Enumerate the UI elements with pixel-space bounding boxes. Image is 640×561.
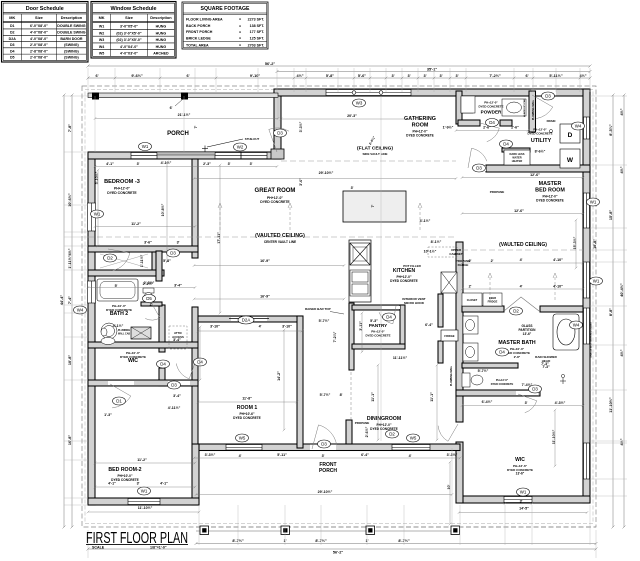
interior wall bedroom-3 east / hall — [192, 159, 198, 258]
closet divider wall — [152, 252, 158, 276]
svg-text:4': 4' — [520, 285, 523, 289]
svg-text:4': 4' — [520, 258, 523, 262]
door D2 dining wic swing — [438, 424, 458, 441]
svg-text:ARCHED: ARCHED — [153, 52, 169, 56]
svg-text:GRACLE AND TEMPERED GLASS: GRACLE AND TEMPERED GLASS — [590, 322, 593, 358]
svg-text:SCALE: SCALE — [92, 546, 105, 550]
svg-text:7'-2¼": 7'-2¼" — [333, 331, 337, 342]
svg-text:W4: W4 — [575, 124, 582, 129]
plumbing wall box bath2 — [131, 327, 151, 339]
svg-text:Description: Description — [61, 15, 83, 20]
bedroom-2 south wall — [88, 498, 199, 505]
svg-text:Description: Description — [150, 15, 172, 20]
svg-text:DYED CONCRETE: DYED CONCRETE — [260, 200, 290, 204]
door D1 wic opening — [108, 381, 134, 385]
svg-text:BRICK LEDGE: BRICK LEDGE — [186, 37, 211, 41]
door label D3 hall — [167, 249, 180, 257]
top dimension 56ft — [87, 65, 592, 68]
wic / bedroom-2 divider wall — [88, 380, 198, 386]
svg-text:ROOM: ROOM — [412, 122, 429, 128]
bath2 tub — [97, 279, 138, 301]
kitchen alcove wall upper — [438, 294, 443, 327]
window label W5 room1 — [236, 434, 249, 442]
svg-text:=: = — [239, 18, 241, 22]
porch post 1 — [92, 93, 99, 100]
svg-text:3'-4": 3'-4" — [174, 284, 182, 288]
svg-text:6'-0"X8'-0": 6'-0"X8'-0" — [30, 24, 48, 28]
svg-text:6'-4": 6'-4" — [361, 453, 369, 457]
door label D2 dining wic — [386, 430, 399, 438]
door D3 front entry swing — [312, 425, 337, 449]
svg-text:D3: D3 — [170, 251, 176, 256]
svg-text:Size: Size — [35, 15, 44, 20]
svg-text:5'-6": 5'-6" — [358, 74, 366, 78]
svg-text:DYED CONCRETE: DYED CONCRETE — [365, 333, 390, 337]
svg-text:8'-8": 8'-8" — [609, 308, 613, 316]
svg-text:D4: D4 — [503, 142, 509, 147]
svg-text:D4: D4 — [160, 362, 166, 367]
front porch post 2 — [281, 526, 290, 535]
svg-text:16'-9": 16'-9" — [260, 295, 270, 299]
left dimension segments — [71, 94, 74, 529]
master vanity sinks — [463, 316, 478, 361]
svg-text:4'-0"X3'-0": 4'-0"X3'-0" — [120, 52, 138, 56]
door label D4 toilet — [496, 348, 509, 356]
svg-text:PROPANE: PROPANE — [490, 190, 505, 194]
door label D5 bath2 — [143, 295, 156, 303]
door D3 bed2 opening — [168, 381, 190, 385]
door label D2 masterbath — [510, 307, 523, 315]
pantry north wall — [352, 305, 404, 310]
south wall WIC — [460, 496, 590, 503]
left dimension long — [63, 94, 66, 529]
interior dimension lines — [94, 117, 280, 120]
svg-text:D4: D4 — [197, 360, 203, 365]
svg-text:2'-0"X8'-0": 2'-0"X8'-0" — [30, 43, 48, 47]
window W1 wic south wall — [504, 497, 532, 503]
svg-text:PORCH: PORCH — [167, 131, 189, 137]
svg-text:W5: W5 — [239, 436, 246, 441]
svg-text:11'-2": 11'-2" — [131, 222, 141, 226]
svg-text:56'-2": 56'-2" — [265, 62, 276, 66]
window W1 master bed east wall 2 — [584, 262, 590, 298]
svg-text:SQUARE FOOTAGE: SQUARE FOOTAGE — [201, 6, 250, 12]
svg-text:4'-1": 4'-1" — [108, 482, 116, 486]
svg-text:MICRO HOOD: MICRO HOOD — [404, 301, 425, 305]
svg-text:8'-5¼": 8'-5¼" — [609, 124, 613, 136]
svg-text:BED ROOM-2: BED ROOM-2 — [108, 467, 141, 473]
door D4 wic swing — [176, 360, 196, 379]
svg-text:CLOSET: CLOSET — [467, 298, 478, 302]
svg-text:5'-11": 5'-11" — [277, 453, 287, 457]
utility / master bed divider wall — [486, 165, 590, 172]
room-1 north wall — [198, 316, 302, 322]
svg-text:9'-6½": 9'-6½" — [131, 74, 143, 78]
closet rod diagonal bedroom3 closet — [100, 254, 148, 268]
door D3 master wic swing — [518, 394, 537, 413]
svg-text:2'-3": 2'-3" — [203, 162, 211, 166]
svg-text:4'-0"X8'-0": 4'-0"X8'-0" — [30, 37, 48, 41]
svg-text:6'-4": 6'-4" — [425, 323, 433, 327]
svg-text:1/8"=1'-0": 1/8"=1'-0" — [150, 546, 167, 550]
svg-text:HUNG: HUNG — [156, 45, 167, 49]
svg-text:W1: W1 — [590, 200, 597, 205]
svg-text:D4: D4 — [10, 49, 15, 53]
svg-text:10': 10' — [447, 484, 451, 489]
vault arrow — [219, 205, 221, 230]
master toilet — [462, 373, 483, 387]
svg-text:(SWING): (SWING) — [64, 56, 79, 60]
svg-text:2273 SFT.: 2273 SFT. — [248, 18, 265, 22]
svg-text:3'-4": 3'-4" — [173, 338, 181, 342]
propane stub-out marker — [202, 139, 243, 152]
svg-text:4½": 4½" — [620, 108, 624, 115]
master vault dashed line — [462, 249, 583, 251]
svg-text:3': 3' — [351, 186, 354, 190]
svg-text:14'-5": 14'-5" — [519, 507, 529, 511]
svg-text:18'-8": 18'-8" — [593, 239, 597, 249]
svg-text:(SWING): (SWING) — [64, 49, 79, 53]
door label D1 bed2 — [113, 397, 126, 405]
svg-text:44'-4": 44'-4" — [60, 295, 64, 306]
window W1 bedroom-3 west wall — [88, 203, 96, 231]
door label D4 wic2 — [157, 360, 170, 368]
svg-text:29'-10½": 29'-10½" — [319, 171, 334, 175]
svg-text:17'-11": 17'-11" — [217, 232, 221, 244]
wic sink top — [101, 328, 107, 336]
west wall WIC/master suite — [456, 242, 463, 422]
door label D3 porch — [274, 129, 287, 137]
svg-text:3': 3' — [177, 241, 180, 245]
powder south wall east seg — [500, 120, 512, 126]
front porch post 1 — [200, 526, 209, 535]
svg-text:3': 3' — [391, 74, 394, 78]
svg-text:Door Schedule: Door Schedule — [26, 6, 64, 12]
svg-text:HEATER: HEATER — [512, 159, 523, 163]
front wall (south) main — [194, 444, 460, 451]
bottom dimension 56ft — [87, 548, 598, 551]
svg-text:29'-10½": 29'-10½" — [318, 490, 333, 494]
slab band pier — [157, 152, 215, 155]
svg-text:D3: D3 — [171, 383, 177, 388]
svg-text:DYED CONCRETE: DYED CONCRETE — [491, 382, 514, 386]
svg-text:POWDER: POWDER — [481, 110, 502, 115]
hall west wall upper — [159, 305, 165, 352]
svg-text:1'-9½": 1'-9½" — [443, 126, 454, 130]
window W4 utility east wall — [584, 117, 590, 139]
svg-text:MASTER: MASTER — [539, 181, 562, 187]
svg-text:2703 SFT.: 2703 SFT. — [248, 43, 265, 47]
svg-text:3': 3' — [455, 74, 458, 78]
svg-text:D2A: D2A — [242, 318, 251, 323]
svg-text:11'-10½": 11'-10½" — [552, 429, 556, 444]
powder cab — [461, 96, 475, 113]
svg-text:2': 2' — [150, 303, 153, 307]
closet wall south of bedroom-3 — [88, 246, 198, 252]
svg-text:W3: W3 — [99, 38, 104, 42]
top dimension 35ft — [276, 70, 592, 73]
svg-text:4': 4' — [259, 325, 262, 329]
door label D2 closet — [104, 254, 117, 262]
svg-text:2'-6": 2'-6" — [511, 126, 519, 130]
svg-text:PROPANE: PROPANE — [355, 421, 370, 425]
svg-text:PORCH: PORCH — [319, 468, 337, 474]
svg-text:W1: W1 — [142, 144, 149, 149]
powder west wall — [456, 91, 462, 124]
door label D3 bed2 — [168, 381, 181, 389]
svg-text:4'-0"X4'-0": 4'-0"X4'-0" — [120, 45, 138, 49]
svg-text:W3: W3 — [356, 101, 363, 106]
door D3 porch swing — [269, 128, 289, 152]
svg-text:(VAULTED CEILING): (VAULTED CEILING) — [255, 233, 305, 239]
vault arrow — [289, 205, 291, 230]
window label W3 — [353, 99, 366, 107]
front door D3 opening — [310, 445, 336, 451]
svg-text:4'-10": 4'-10" — [553, 258, 563, 262]
svg-text:D1: D1 — [116, 399, 122, 404]
upper cabinet dashed — [428, 247, 457, 257]
svg-text:15'-3½": 15'-3½" — [573, 236, 577, 249]
svg-text:DYED CONCRETE: DYED CONCRETE — [406, 134, 434, 138]
svg-text:FLOOR LIVING AREA: FLOOR LIVING AREA — [186, 18, 223, 22]
svg-text:WATER: WATER — [512, 155, 521, 159]
svg-text:3': 3' — [423, 74, 426, 78]
svg-text:(SWING): (SWING) — [64, 43, 79, 47]
svg-text:8'-1½": 8'-1½" — [431, 240, 442, 244]
svg-text:=: = — [239, 30, 241, 34]
svg-text:D3: D3 — [476, 166, 482, 171]
svg-text:7': 7' — [371, 204, 375, 207]
bedroom-2 east wall — [192, 444, 199, 505]
svg-text:4'-1½": 4'-1½" — [113, 324, 124, 328]
window label W1 wic south — [517, 488, 530, 496]
svg-text:CENTER VAULT LINE: CENTER VAULT LINE — [264, 240, 296, 244]
svg-text:Size: Size — [125, 15, 134, 20]
bath-2 / wic divider wall — [88, 342, 198, 348]
svg-text:DARK LESS: DARK LESS — [510, 152, 525, 156]
svg-text:=: = — [239, 43, 241, 47]
svg-text:7'-8": 7'-8" — [68, 124, 72, 132]
door D2 closet swing — [108, 249, 130, 271]
pantry south wall — [352, 344, 405, 349]
window label W4 west — [74, 306, 87, 314]
svg-text:16'-8": 16'-8" — [68, 435, 72, 446]
svg-text:MASTER BATH: MASTER BATH — [498, 340, 536, 346]
svg-text:DYED CONCRETE: DYED CONCRETE — [233, 416, 261, 420]
svg-text:11'-1": 11'-1" — [371, 392, 375, 402]
svg-text:1'-11½": 1'-11½" — [68, 255, 72, 268]
east exterior wall — [583, 89, 590, 503]
svg-text:2': 2' — [469, 259, 472, 263]
svg-text:3': 3' — [439, 74, 442, 78]
svg-text:3': 3' — [250, 162, 253, 166]
svg-text:5'-7½": 5'-7½" — [319, 319, 330, 323]
svg-text:W1: W1 — [99, 25, 104, 29]
svg-text:PLUMBING WALL: PLUMBING WALL — [450, 365, 453, 386]
window schedule table — [91, 2, 176, 59]
svg-text:W1: W1 — [520, 490, 527, 495]
svg-text:3'-10": 3'-10" — [282, 325, 292, 329]
svg-text:3': 3' — [228, 162, 231, 166]
svg-text:7'-2½": 7'-2½" — [489, 74, 501, 78]
front porch post 4 — [451, 526, 460, 535]
svg-text:7'-3": 7'-3" — [541, 362, 549, 366]
svg-text:WIC: WIC — [515, 457, 525, 463]
svg-text:W1: W1 — [141, 489, 148, 494]
svg-text:D4: D4 — [499, 350, 505, 355]
svg-text:11'-1": 11'-1" — [430, 392, 434, 402]
svg-text:BEDROOM -3: BEDROOM -3 — [104, 179, 140, 185]
door D2A opening — [231, 317, 267, 321]
svg-text:W5: W5 — [99, 52, 104, 56]
door label D4 wic — [194, 358, 207, 366]
svg-text:4'-11½": 4'-11½" — [168, 406, 181, 410]
svg-text:13'-6": 13'-6" — [523, 332, 532, 336]
svg-text:4': 4' — [239, 454, 242, 458]
svg-text:D5: D5 — [146, 296, 152, 301]
svg-text:PANTRY: PANTRY — [369, 323, 387, 328]
svg-text:12'-6": 12'-6" — [514, 209, 524, 213]
door label D3 utility top — [542, 92, 555, 100]
window label W4 tub — [570, 321, 583, 329]
svg-text:RANGE: RANGE — [458, 263, 469, 267]
svg-text:4½": 4½" — [296, 74, 303, 78]
vault arrow master — [489, 275, 491, 300]
svg-text:HUNG: HUNG — [156, 38, 167, 42]
svg-text:5'-7½": 5'-7½" — [320, 393, 331, 397]
svg-text:3': 3' — [137, 482, 140, 486]
svg-text:D3: D3 — [321, 442, 327, 447]
svg-text:4'-1": 4'-1" — [160, 482, 168, 486]
svg-text:SIDE VAULT LINE: SIDE VAULT LINE — [362, 152, 387, 156]
window label W2 great room top — [234, 143, 247, 151]
svg-text:W1: W1 — [94, 212, 101, 217]
window label W1 bedroom3 top — [139, 143, 152, 151]
fridge — [441, 330, 458, 341]
front porch slab edge — [196, 526, 596, 528]
bath-2 nook east wall — [156, 251, 162, 281]
brick ledge dashed boundary — [82, 86, 596, 527]
svg-text:20'-3": 20'-3" — [347, 114, 357, 118]
dryer box — [560, 124, 580, 143]
svg-text:GREAT ROOM: GREAT ROOM — [255, 188, 296, 194]
front porch post 3 — [366, 526, 375, 535]
svg-text:TOTAL AREA: TOTAL AREA — [186, 43, 209, 47]
svg-text:Window Schedule: Window Schedule — [110, 6, 156, 12]
svg-text:BARN DOOR: BARN DOOR — [60, 37, 83, 41]
svg-text:7': 7' — [194, 125, 198, 128]
kitchen alcove wall lower — [438, 341, 443, 363]
top dimension segments — [87, 77, 592, 80]
svg-text:177 SFT.: 177 SFT. — [250, 30, 265, 34]
svg-text:56'-2": 56'-2" — [333, 551, 344, 555]
window W3 gathering north wall — [326, 90, 411, 96]
kitchen island — [343, 191, 406, 222]
svg-text:CABINET: CABINET — [449, 252, 463, 256]
svg-text:2'-2½": 2'-2½" — [143, 282, 154, 286]
shower head symbol — [560, 374, 566, 384]
svg-text:3': 3' — [525, 401, 528, 405]
svg-text:FRONT PORCH: FRONT PORCH — [186, 30, 213, 34]
window label W1 east2 — [590, 277, 603, 285]
svg-text:W5: W5 — [410, 436, 417, 441]
kitchen sink — [350, 270, 370, 296]
svg-text:MK: MK — [9, 15, 15, 20]
svg-text:15'-8": 15'-8" — [609, 210, 613, 221]
svg-text:DOUBLE SWING: DOUBLE SWING — [57, 24, 86, 28]
svg-text:1'-11½": 1'-11½" — [140, 254, 144, 267]
window label W4 utility — [572, 122, 585, 130]
svg-text:DYED CONCRETE: DYED CONCRETE — [478, 105, 503, 109]
washer box — [560, 149, 580, 168]
svg-text:138 SFT.: 138 SFT. — [250, 24, 265, 28]
svg-text:(02) 3'-0"X5'-0": (02) 3'-0"X5'-0" — [116, 31, 142, 35]
svg-text:DRAIN: DRAIN — [547, 119, 556, 123]
svg-text:D2: D2 — [10, 30, 15, 34]
svg-text:3': 3' — [407, 74, 410, 78]
door label D4 powder — [486, 119, 499, 127]
window W2 great room north wall — [215, 153, 267, 159]
window label W5 dining — [407, 434, 420, 442]
svg-text:4'-10": 4'-10" — [553, 285, 563, 289]
svg-text:D3: D3 — [277, 131, 283, 136]
svg-text:W4: W4 — [99, 45, 104, 49]
vault arrow — [419, 205, 421, 230]
svg-text:2'-0"X8'-0": 2'-0"X8'-0" — [30, 56, 48, 60]
svg-text:3'-3½": 3'-3½" — [205, 453, 216, 457]
svg-text:11'-10½": 11'-10½" — [138, 506, 153, 510]
gathering room west wall — [274, 91, 281, 159]
north exterior wall gathering/powder/utility — [274, 89, 590, 96]
svg-text:3'-4": 3'-4" — [173, 394, 181, 398]
svg-text:3': 3' — [520, 500, 523, 504]
svg-text:5'-7½": 5'-7½" — [478, 369, 489, 373]
hall west wall lower — [159, 368, 165, 386]
svg-text:4½": 4½" — [620, 166, 624, 173]
square footage table — [182, 2, 268, 49]
window W4 master bath east wall — [584, 308, 590, 344]
range east wall — [441, 272, 457, 293]
master toilet room north wall — [462, 363, 518, 368]
svg-text:4'-1": 4'-1" — [106, 162, 114, 166]
window W1 master bed east wall — [584, 193, 590, 228]
door D3 master hall swing — [468, 148, 487, 168]
svg-text:11'-10½": 11'-10½" — [609, 397, 613, 413]
svg-text:BATH 2: BATH 2 — [110, 311, 128, 317]
kitchen counter west — [349, 240, 371, 302]
svg-text:HUNG: HUNG — [156, 25, 167, 29]
raised bar wall — [349, 303, 354, 370]
window W5 dining front wall — [392, 445, 430, 451]
svg-text:D5: D5 — [10, 56, 15, 60]
svg-text:W4: W4 — [573, 323, 580, 328]
master bath / wic divider wall — [456, 390, 540, 396]
right dimension segments — [612, 94, 615, 529]
svg-text:8': 8' — [340, 393, 343, 397]
svg-text:DOUBLE SWING: DOUBLE SWING — [57, 30, 86, 34]
svg-text:35'-1": 35'-1" — [427, 67, 438, 71]
svg-text:3'-0"X5'-0": 3'-0"X5'-0" — [120, 25, 138, 29]
svg-text:2': 2' — [469, 285, 472, 289]
cooktop — [350, 243, 370, 265]
door D1 bedroom-2 swing — [110, 384, 131, 408]
svg-text:11'-11½": 11'-11½" — [393, 356, 408, 360]
svg-text:PH+12'-6": PH+12'-6" — [496, 378, 509, 382]
svg-text:4'-3½": 4'-3½" — [555, 401, 566, 405]
window W1 bedroom-2 south wall — [128, 499, 160, 505]
svg-text:4': 4' — [409, 454, 412, 458]
water heater — [504, 150, 530, 165]
